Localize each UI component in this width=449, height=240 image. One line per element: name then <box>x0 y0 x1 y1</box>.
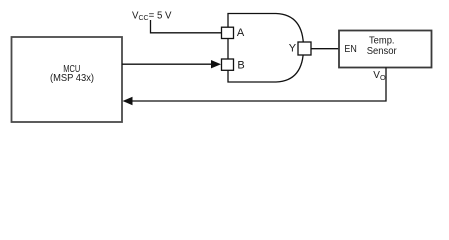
svg-text:VO: VO <box>373 70 386 82</box>
svg-text:EN: EN <box>344 43 356 55</box>
svg-text:(MSP 43x): (MSP 43x) <box>50 72 94 84</box>
svg-text:B: B <box>237 59 244 71</box>
svg-text:Sensor: Sensor <box>367 45 397 57</box>
svg-text:VCC= 5 V: VCC= 5 V <box>132 10 172 22</box>
svg-text:Y: Y <box>289 43 297 55</box>
svg-text:A: A <box>237 27 245 39</box>
